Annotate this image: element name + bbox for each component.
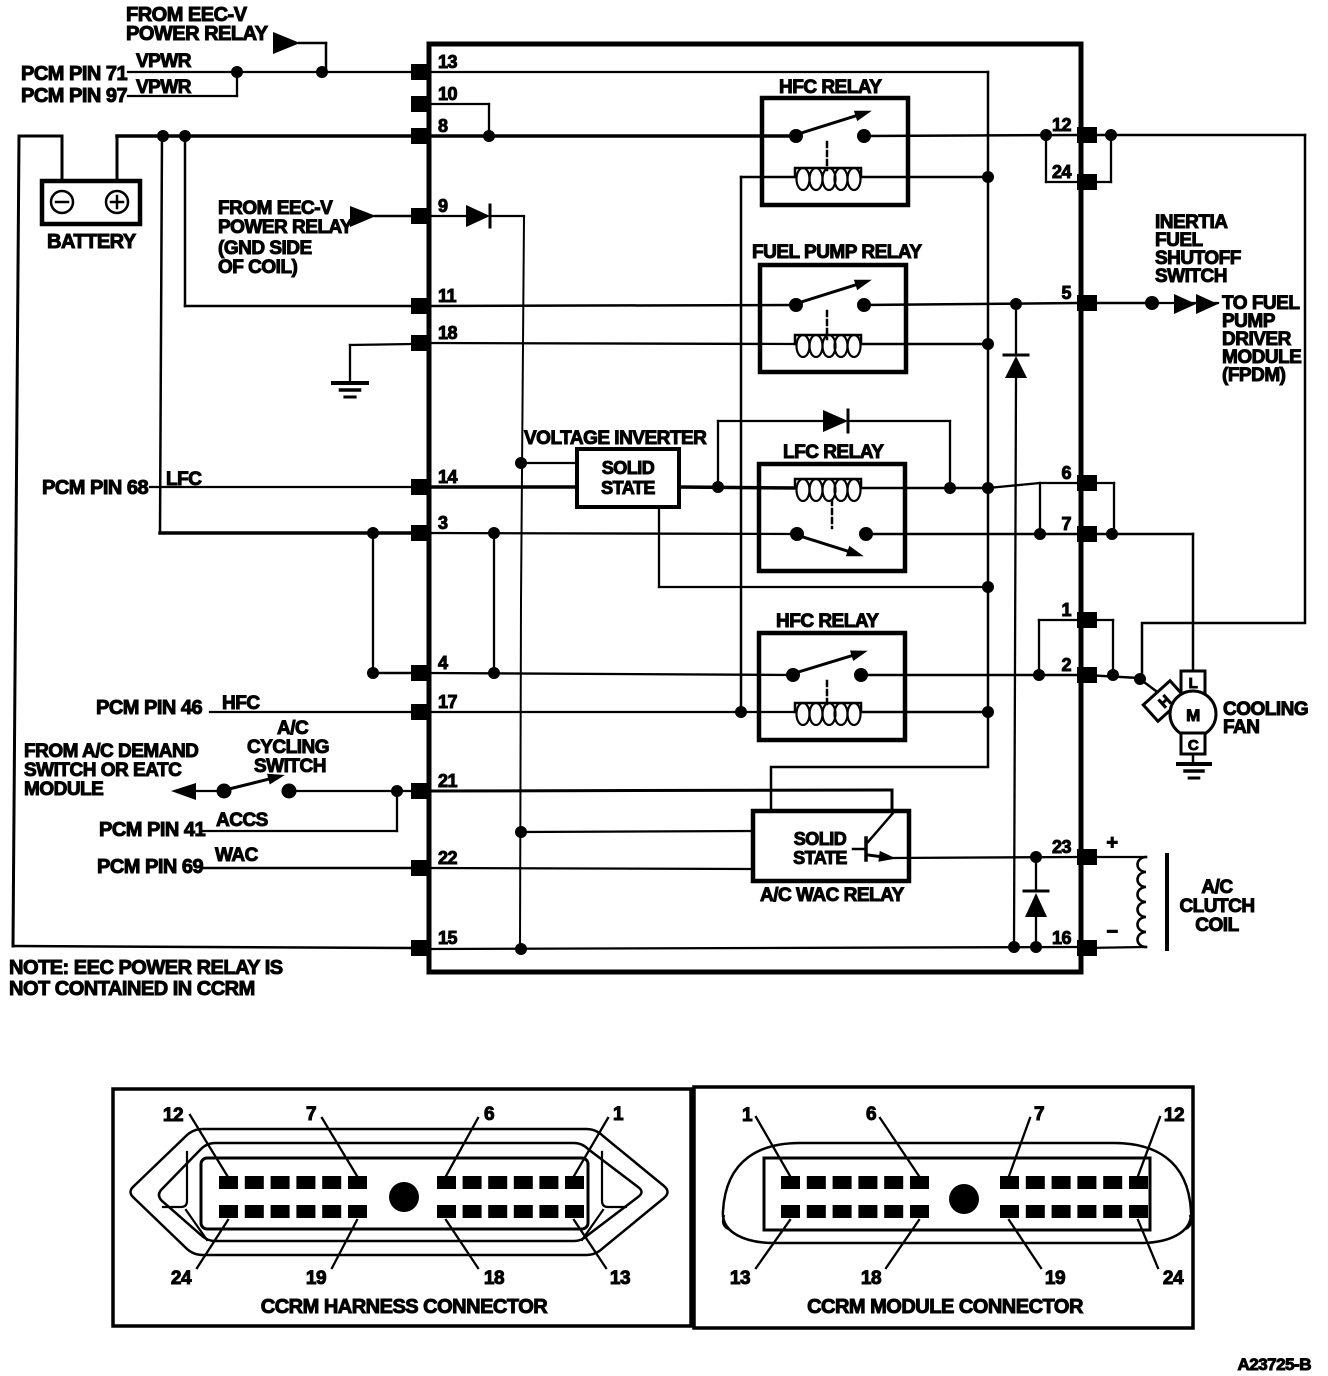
- J2 pins top row (1..6, 7..12): [781, 1176, 800, 1189]
- pin 16 pad (CCRM right): [1077, 940, 1097, 956]
- junction inverter out - rail: [982, 581, 994, 593]
- junction pin3 ext: [367, 527, 379, 539]
- relay K5 A/C WAC RELAY (solid state): [753, 811, 909, 881]
- svg-text:1: 1: [1061, 600, 1071, 620]
- ground (fan): [1178, 762, 1210, 766]
- junction pin10-pin8: [483, 130, 495, 142]
- svg-text:+: +: [1106, 832, 1117, 854]
- svg-text:13: 13: [610, 1268, 630, 1289]
- pin 4 pad (CCRM left): [411, 665, 431, 681]
- svg-text:6: 6: [866, 1104, 876, 1125]
- svg-text:COIL: COIL: [1195, 915, 1239, 936]
- junction battery+ B: [179, 130, 191, 142]
- junction battery+ A: [157, 130, 169, 142]
- cycling switch contact R: [282, 784, 297, 799]
- J1 tip hooks: [163, 1152, 207, 1240]
- cycling switch contact L: [217, 784, 232, 799]
- junction K1 coil - VPWR rail: [982, 171, 994, 183]
- connector panel frames: [113, 1089, 691, 1326]
- pin 7 pad (CCRM right): [1077, 526, 1097, 542]
- wire: feed arrow to VPWR rail: [273, 32, 300, 54]
- wire: left ground rail: [13, 136, 19, 946]
- diode D4 (pin23 to ground row): [1035, 857, 1037, 890]
- svg-text:SOLID: SOLID: [602, 458, 655, 478]
- J1 center post: [389, 1182, 419, 1212]
- svg-text:18: 18: [438, 323, 458, 343]
- svg-text:11: 11: [438, 286, 457, 306]
- wire: pin 23 to clutch coil +: [1085, 856, 1146, 858]
- svg-text:OF COIL): OF COIL): [218, 257, 298, 278]
- K1 switch arm: [798, 116, 856, 134]
- K2 switch contact L: [789, 298, 803, 312]
- cycling switch arm: [229, 779, 268, 789]
- inverter output to VPWR rail: [658, 507, 660, 587]
- pin 13 pad (CCRM left): [411, 64, 431, 80]
- svg-text:M: M: [1186, 706, 1200, 725]
- svg-text:(FPDM): (FPDM): [1222, 365, 1286, 386]
- wire: battery+ down-feed to pin 11 row: [184, 136, 187, 306]
- pin 22 pad (CCRM left): [411, 860, 431, 876]
- svg-text:CCRM MODULE CONNECTOR: CCRM MODULE CONNECTOR: [807, 1296, 1084, 1318]
- svg-text:STATE: STATE: [601, 478, 655, 498]
- svg-text:MODULE: MODULE: [24, 779, 103, 800]
- junction ACCS tap: [391, 785, 403, 797]
- wire: K3 coil row to pin 6: [988, 483, 1040, 488]
- svg-text:24: 24: [1163, 1268, 1184, 1289]
- svg-text:PCM PIN 97: PCM PIN 97: [21, 85, 128, 107]
- svg-text:14: 14: [438, 467, 458, 487]
- junction pin12 loop R: [1105, 129, 1117, 141]
- relay K1 HFC RELAY (upper): [762, 98, 908, 205]
- wire: battery minus to ground rail: [61, 136, 64, 181]
- svg-text:FUEL PUMP RELAY: FUEL PUMP RELAY: [752, 242, 922, 263]
- wire: pin 5 to inertia switch: [1085, 302, 1152, 305]
- svg-text:7: 7: [1061, 514, 1071, 534]
- junction pin7 loop R: [1106, 528, 1118, 540]
- wire: pin 13 VPWR rail: [429, 71, 988, 73]
- K3 switch contact L: [790, 527, 804, 541]
- coil of K2 : pin 18 row: [429, 343, 795, 344]
- svg-text:SWITCH OR EATC: SWITCH OR EATC: [24, 760, 182, 781]
- K1 switch contact R: [857, 129, 871, 143]
- svg-text:16: 16: [1052, 928, 1072, 948]
- svg-text:8: 8: [438, 116, 448, 136]
- wire: pin 8 row to HFC relay switch: [429, 134, 796, 138]
- svg-text:PCM PIN 71: PCM PIN 71: [21, 63, 128, 85]
- junction pin12 loop L: [1040, 129, 1052, 141]
- transistor Q1 in K5: [864, 838, 868, 860]
- svg-text:A23725-B: A23725-B: [1238, 1355, 1312, 1374]
- svg-text:1: 1: [742, 1105, 753, 1126]
- svg-text:19: 19: [306, 1268, 326, 1289]
- junction pin5 diode tap: [1010, 298, 1022, 310]
- junction pin3 inner loop: [488, 527, 500, 539]
- svg-text:CLUTCH: CLUTCH: [1179, 896, 1254, 917]
- pin 6 pad (CCRM right): [1077, 475, 1097, 491]
- wire: pin 22 row to WAC input: [429, 868, 753, 869]
- wire: pin6/7 left loop: [1039, 483, 1041, 534]
- K4 switch contact R: [854, 668, 868, 682]
- svg-text:NOT CONTAINED IN CCRM: NOT CONTAINED IN CCRM: [9, 978, 255, 1000]
- wire: WAC output to pin 23: [891, 857, 1077, 858]
- svg-text:6: 6: [1061, 463, 1071, 483]
- wire: pin1/2 right loop: [1085, 619, 1113, 621]
- junction K4 coil - VPWR rail: [982, 706, 994, 718]
- svg-text:10: 10: [438, 84, 458, 104]
- J1 pins top row (12..7, 6..1): [219, 1176, 238, 1189]
- wire: battery+ down-feed to pin 3 row: [160, 136, 162, 533]
- svg-text:3: 3: [438, 513, 448, 533]
- pin 8 pad (CCRM left): [411, 128, 431, 144]
- junction WAC input tap: [515, 826, 527, 838]
- J1 pins bottom row (24..19, 18..13): [219, 1205, 238, 1218]
- junction pin4 ext: [367, 667, 379, 679]
- coil of K1: [795, 168, 861, 177]
- wire: pin 14 LFC row: [429, 485, 577, 489]
- svg-text:A/C: A/C: [277, 718, 309, 739]
- wire: K3 switch out pin 7 row: [866, 533, 1077, 536]
- coil of K3: [795, 479, 861, 488]
- pin 10 pad (CCRM left): [411, 96, 431, 112]
- diode D3 over LFC relay: [717, 421, 719, 487]
- diode D1 after pin 9: [430, 215, 467, 217]
- connector J2 CCRM MODULE CONNECTOR: [723, 1143, 1191, 1243]
- battery: [42, 181, 140, 224]
- svg-text:(GND SIDE: (GND SIDE: [218, 238, 312, 259]
- wire: pin12/24 left loop: [1045, 135, 1047, 182]
- svg-text:18: 18: [484, 1268, 504, 1289]
- svg-text:A/C WAC RELAY: A/C WAC RELAY: [760, 885, 905, 906]
- coil of K4 : pin 17 row: [429, 711, 795, 713]
- wire: pin 2 to fan high: [1085, 675, 1140, 678]
- junction pin7 loop L: [1034, 528, 1046, 540]
- junction K2 coil - VPWR rail: [982, 338, 994, 350]
- junction pin4 inner loop: [488, 667, 500, 679]
- K1 switch contact L: [789, 129, 803, 143]
- wire: HFC coils feed rail x=741: [740, 177, 743, 712]
- J2 center post: [949, 1184, 979, 1214]
- svg-text:C: C: [1188, 737, 1199, 754]
- wire: K1 switch out to pin 12: [864, 135, 1077, 136]
- pin 5 pad (CCRM right): [1077, 295, 1097, 311]
- svg-text:9: 9: [438, 196, 448, 216]
- junction inverter input: [515, 457, 527, 469]
- pin 14 pad (CCRM left): [411, 479, 431, 495]
- svg-text:13: 13: [438, 52, 458, 72]
- wire: pin 4 row to K4 switch: [429, 673, 793, 675]
- svg-text:L: L: [1189, 675, 1198, 692]
- pin 12 pad (CCRM right): [1077, 127, 1097, 143]
- wire: ground rail bottom to pin 15: [13, 946, 412, 948]
- relay K3 LFC RELAY: [759, 464, 905, 571]
- wire: pin6/7 right loop: [1085, 482, 1114, 484]
- junction pin2 loop R: [1107, 669, 1119, 681]
- svg-text:19: 19: [1045, 1268, 1065, 1289]
- wire: pin1/2 left loop: [1038, 620, 1040, 675]
- pin 15 pad (CCRM left): [411, 940, 431, 956]
- junction D4 - ground row: [1030, 941, 1042, 953]
- junction: [316, 66, 328, 78]
- svg-text:STATE: STATE: [793, 848, 847, 868]
- junction fan high feed: [1134, 673, 1146, 685]
- svg-text:VPWR: VPWR: [136, 51, 192, 72]
- svg-text:2: 2: [1061, 655, 1071, 675]
- junction HFC coil rail - pin17: [735, 706, 747, 718]
- pin 1 pad (CCRM right): [1077, 612, 1097, 628]
- K3 switch contact R: [859, 527, 873, 541]
- svg-text:6: 6: [484, 1104, 494, 1125]
- svg-text:13: 13: [730, 1268, 750, 1289]
- svg-text:A/C: A/C: [1201, 877, 1233, 898]
- pin 3 pad (CCRM left): [411, 525, 431, 541]
- wire: pin 11 row to K2 switch: [429, 305, 796, 306]
- svg-text:FROM A/C DEMAND: FROM A/C DEMAND: [24, 741, 198, 762]
- junction pin2 loop L: [1033, 669, 1045, 681]
- svg-text:CCRM HARNESS CONNECTOR: CCRM HARNESS CONNECTOR: [261, 1296, 548, 1318]
- svg-text:POWER RELAY: POWER RELAY: [218, 217, 353, 238]
- wire: clutch coil - to pin 16: [1085, 947, 1146, 948]
- svg-text:FAN: FAN: [1223, 717, 1260, 738]
- svg-text:12: 12: [1164, 1105, 1184, 1126]
- svg-text:1: 1: [613, 1104, 624, 1125]
- wire: pin 10 jumper to pin 8 row: [429, 103, 489, 105]
- svg-text:22: 22: [438, 848, 458, 868]
- svg-text:12: 12: [1052, 115, 1072, 135]
- svg-text:12: 12: [163, 1105, 183, 1126]
- wire: B+ feed down right side to fan high: [1142, 135, 1305, 678]
- wire: VPWR row to pin 13: [128, 71, 412, 73]
- svg-text:LFC RELAY: LFC RELAY: [783, 442, 884, 463]
- pin 21 pad (CCRM left): [411, 783, 431, 799]
- K2 switch contact R: [857, 298, 871, 312]
- svg-text:SWITCH: SWITCH: [254, 756, 326, 777]
- K3 switch arm: [800, 536, 848, 551]
- relay K4 HFC RELAY (lower): [759, 633, 905, 740]
- junction D4 tap: [1030, 851, 1042, 863]
- svg-text:NOTE: EEC POWER RELAY IS: NOTE: EEC POWER RELAY IS: [9, 957, 283, 979]
- svg-text:SOLID: SOLID: [794, 829, 847, 849]
- svg-text:CYCLING: CYCLING: [247, 737, 329, 758]
- svg-text:7: 7: [1034, 1104, 1044, 1125]
- svg-text:4: 4: [438, 653, 448, 673]
- svg-text:21: 21: [438, 771, 458, 791]
- wire: inner loop pin3-pin4: [493, 533, 495, 673]
- wire: pin 7 row to fan low: [1085, 533, 1193, 536]
- svg-text:15: 15: [438, 928, 458, 948]
- relay K2 FUEL PUMP RELAY: [760, 265, 906, 372]
- pin 11 pad (CCRM left): [411, 298, 431, 314]
- inductor L1 A/C clutch coil: [1138, 857, 1147, 947]
- junction K3 coil - VPWR rail: [982, 482, 994, 494]
- pin 23 pad (CCRM right): [1077, 849, 1097, 865]
- junction diode loop: [712, 481, 724, 493]
- motor M1 cooling fan: [1181, 671, 1205, 693]
- svg-text:HFC RELAY: HFC RELAY: [779, 77, 882, 98]
- svg-text:5: 5: [1061, 283, 1071, 303]
- svg-text:23: 23: [1052, 837, 1072, 857]
- ground (pin 18 external): [350, 344, 412, 345]
- junction x521 rail - ground row: [515, 943, 527, 955]
- svg-text:HFC RELAY: HFC RELAY: [776, 611, 879, 632]
- wire: pin 21 row to WAC collector: [429, 790, 892, 791]
- wire: pin 3 row to K3 switch: [429, 533, 797, 534]
- svg-text:ACCS: ACCS: [216, 810, 268, 831]
- wire: battery plus to pin 8 row: [116, 136, 119, 181]
- inertia switch node: [1145, 296, 1159, 310]
- pin 2 pad (CCRM right): [1077, 667, 1097, 683]
- switch S2 inertia fuel shutoff (symbol): [1152, 302, 1218, 304]
- svg-text:WAC: WAC: [215, 845, 259, 866]
- diode D2 (pin5 to ground row): [1015, 304, 1017, 354]
- pin 17 pad (CCRM left): [411, 704, 431, 720]
- wire: pin97 VPWR joins: [128, 95, 237, 97]
- svg-text:SWITCH: SWITCH: [1155, 266, 1227, 287]
- svg-text:VOLTAGE INVERTER: VOLTAGE INVERTER: [524, 428, 707, 449]
- svg-text:PCM PIN 46: PCM PIN 46: [96, 697, 203, 719]
- svg-text:17: 17: [438, 692, 458, 712]
- svg-text:24: 24: [1052, 162, 1072, 182]
- wire: diode cathode drop rail x=521: [520, 216, 524, 949]
- svg-text:PCM PIN 68: PCM PIN 68: [42, 477, 149, 499]
- Q1 emitter: [868, 855, 879, 856]
- connector J1 CCRM HARNESS CONNECTOR: [131, 1129, 668, 1255]
- wire: pin 12 row to fan B+ feed: [1085, 134, 1305, 137]
- CCRM module box: [429, 44, 1081, 972]
- J2 pins bottom row (13..18, 19..24): [781, 1205, 800, 1218]
- svg-text:POWER RELAY: POWER RELAY: [126, 23, 269, 45]
- svg-text:PCM PIN 41: PCM PIN 41: [99, 819, 206, 841]
- svg-text:FROM EEC-V: FROM EEC-V: [218, 198, 333, 219]
- svg-text:BATTERY: BATTERY: [47, 231, 137, 253]
- ground symbol: [333, 381, 367, 385]
- junction D3 cathode - coil: [944, 482, 956, 494]
- junction: [231, 66, 243, 78]
- wire: pin 3 external feed: [160, 531, 412, 535]
- wire: K2 switch out to pin 5: [864, 303, 1077, 305]
- svg-text:PCM PIN 69: PCM PIN 69: [97, 856, 204, 878]
- K4 switch arm: [795, 656, 852, 673]
- wire: K4 switch out pin 2 row: [861, 674, 1077, 677]
- svg-text:24: 24: [171, 1268, 192, 1289]
- wire: ground row pin 15 to pin 16: [429, 947, 1077, 949]
- pin 24 pad (CCRM right): [1077, 174, 1097, 190]
- wire: pin12/24 right loop: [1110, 135, 1112, 182]
- junction D2 - ground row: [1008, 941, 1020, 953]
- svg-text:7: 7: [306, 1104, 316, 1125]
- svg-text:−: −: [1106, 921, 1117, 943]
- svg-text:18: 18: [861, 1268, 881, 1289]
- pin 9 pad (CCRM left): [411, 208, 431, 224]
- K4 switch contact L: [786, 668, 800, 682]
- pin 18 pad (CCRM left): [411, 335, 431, 351]
- K2 switch arm: [798, 285, 856, 303]
- wire: external loop pin3-pin4: [372, 533, 374, 673]
